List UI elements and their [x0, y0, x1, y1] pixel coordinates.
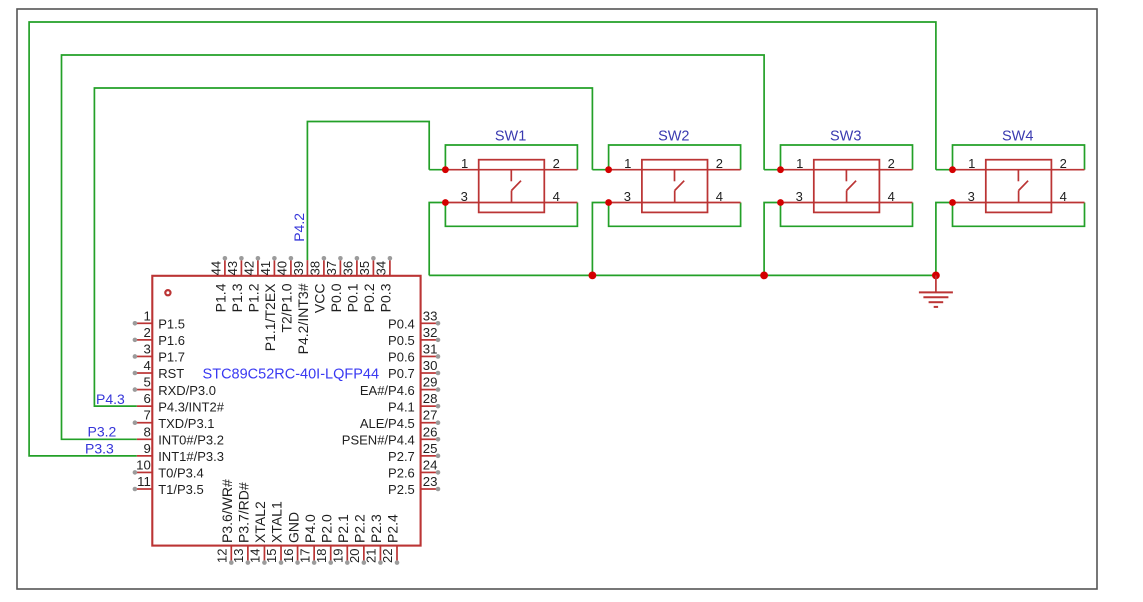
svg-text:VCC: VCC [312, 284, 328, 314]
svg-text:39: 39 [291, 261, 306, 275]
svg-text:30: 30 [423, 358, 438, 373]
svg-text:XTAL2: XTAL2 [252, 501, 268, 543]
svg-text:T2/P1.0: T2/P1.0 [279, 283, 295, 332]
svg-text:P0.2: P0.2 [361, 283, 377, 312]
svg-text:16: 16 [281, 549, 296, 563]
svg-text:P4.0: P4.0 [302, 514, 318, 543]
svg-text:INT0#/P3.2: INT0#/P3.2 [158, 432, 224, 447]
svg-text:15: 15 [264, 549, 279, 563]
svg-text:28: 28 [423, 391, 438, 406]
svg-text:1: 1 [624, 156, 631, 171]
svg-text:P1.4: P1.4 [213, 283, 229, 312]
svg-text:29: 29 [423, 375, 438, 390]
svg-text:31: 31 [423, 341, 438, 356]
svg-text:43: 43 [225, 261, 240, 275]
svg-text:3: 3 [968, 189, 975, 204]
svg-text:37: 37 [324, 261, 339, 275]
svg-text:1: 1 [968, 156, 975, 171]
svg-text:1: 1 [796, 156, 803, 171]
svg-text:9: 9 [143, 441, 150, 456]
svg-text:P3.6/WR#: P3.6/WR# [219, 479, 235, 543]
svg-text:P0.7: P0.7 [388, 366, 415, 381]
svg-text:10: 10 [136, 457, 151, 472]
svg-text:2: 2 [553, 156, 560, 171]
svg-text:RST: RST [158, 366, 184, 381]
svg-text:XTAL1: XTAL1 [269, 501, 285, 543]
svg-text:1: 1 [143, 308, 150, 323]
svg-text:P0.6: P0.6 [388, 350, 415, 365]
svg-text:24: 24 [423, 457, 438, 472]
svg-text:21: 21 [364, 549, 379, 563]
svg-text:34: 34 [373, 261, 388, 275]
svg-text:T0/P3.4: T0/P3.4 [158, 466, 204, 481]
svg-text:38: 38 [307, 261, 322, 275]
svg-text:T1/P3.5: T1/P3.5 [158, 482, 204, 497]
svg-text:4: 4 [1060, 189, 1067, 204]
svg-text:23: 23 [423, 474, 438, 489]
svg-text:2: 2 [888, 156, 895, 171]
svg-text:P0.3: P0.3 [378, 283, 394, 312]
svg-text:25: 25 [423, 441, 438, 456]
svg-text:41: 41 [258, 261, 273, 275]
svg-text:P2.2: P2.2 [352, 514, 368, 543]
svg-text:P2.5: P2.5 [388, 482, 415, 497]
svg-text:P2.3: P2.3 [368, 514, 384, 543]
svg-text:P0.5: P0.5 [388, 333, 415, 348]
svg-text:P4.3/INT2#: P4.3/INT2# [158, 399, 225, 414]
svg-text:17: 17 [297, 549, 312, 563]
svg-text:4: 4 [716, 189, 723, 204]
svg-text:ALE/P4.5: ALE/P4.5 [360, 416, 415, 431]
svg-text:40: 40 [274, 261, 289, 275]
svg-text:P4.2/INT3#: P4.2/INT3# [295, 283, 311, 354]
svg-text:PSEN#/P4.4: PSEN#/P4.4 [342, 432, 415, 447]
svg-text:P3.3: P3.3 [85, 441, 114, 457]
svg-text:P4.2: P4.2 [291, 213, 307, 242]
svg-text:RXD/P3.0: RXD/P3.0 [158, 383, 216, 398]
svg-text:13: 13 [231, 549, 246, 563]
svg-text:P1.7: P1.7 [158, 350, 185, 365]
svg-text:3: 3 [143, 341, 150, 356]
svg-text:P2.7: P2.7 [388, 449, 415, 464]
svg-text:P2.0: P2.0 [318, 514, 334, 543]
svg-text:6: 6 [143, 391, 150, 406]
svg-text:5: 5 [143, 375, 150, 390]
svg-text:P2.4: P2.4 [385, 514, 401, 543]
svg-text:GND: GND [285, 512, 301, 543]
svg-text:SW2: SW2 [658, 129, 689, 145]
svg-text:26: 26 [423, 424, 438, 439]
svg-text:SW1: SW1 [495, 129, 526, 145]
svg-text:8: 8 [143, 424, 150, 439]
svg-text:4: 4 [143, 358, 150, 373]
svg-text:P1.6: P1.6 [158, 333, 185, 348]
svg-text:14: 14 [248, 549, 263, 563]
svg-text:3: 3 [461, 189, 468, 204]
svg-text:2: 2 [143, 325, 150, 340]
svg-text:12: 12 [215, 549, 230, 563]
svg-text:P3.7/RD#: P3.7/RD# [236, 482, 252, 543]
svg-text:19: 19 [330, 549, 345, 563]
svg-text:32: 32 [423, 325, 438, 340]
svg-text:STC89C52RC-40I-LQFP44: STC89C52RC-40I-LQFP44 [203, 366, 380, 382]
svg-text:P1.3: P1.3 [229, 283, 245, 312]
svg-text:11: 11 [137, 474, 151, 489]
svg-text:22: 22 [380, 549, 395, 563]
svg-text:7: 7 [143, 408, 150, 423]
svg-text:P2.6: P2.6 [388, 466, 415, 481]
svg-text:33: 33 [423, 308, 438, 323]
svg-text:2: 2 [1060, 156, 1067, 171]
svg-text:P2.1: P2.1 [335, 514, 351, 543]
svg-text:INT1#/P3.3: INT1#/P3.3 [158, 449, 224, 464]
svg-text:2: 2 [716, 156, 723, 171]
svg-text:3: 3 [796, 189, 803, 204]
svg-text:27: 27 [423, 408, 438, 423]
svg-text:SW4: SW4 [1002, 129, 1033, 145]
svg-text:SW3: SW3 [830, 129, 861, 145]
svg-text:P1.1/T2EX: P1.1/T2EX [262, 283, 278, 351]
svg-text:P1.5: P1.5 [158, 317, 185, 332]
svg-text:42: 42 [241, 261, 256, 275]
svg-text:44: 44 [208, 261, 223, 275]
svg-text:EA#/P4.6: EA#/P4.6 [360, 383, 415, 398]
svg-text:18: 18 [314, 549, 329, 563]
svg-text:P3.2: P3.2 [88, 423, 117, 439]
svg-text:TXD/P3.1: TXD/P3.1 [158, 416, 214, 431]
svg-text:36: 36 [340, 261, 355, 275]
svg-text:P0.0: P0.0 [328, 283, 344, 312]
svg-text:3: 3 [624, 189, 631, 204]
svg-text:P1.2: P1.2 [246, 283, 262, 312]
svg-text:20: 20 [347, 549, 362, 563]
svg-text:P4.1: P4.1 [388, 399, 415, 414]
svg-text:P4.3: P4.3 [96, 391, 125, 407]
svg-text:35: 35 [357, 261, 372, 275]
svg-text:P0.4: P0.4 [388, 317, 415, 332]
svg-text:1: 1 [461, 156, 468, 171]
svg-text:4: 4 [553, 189, 560, 204]
svg-text:4: 4 [888, 189, 895, 204]
svg-text:P0.1: P0.1 [345, 283, 361, 312]
